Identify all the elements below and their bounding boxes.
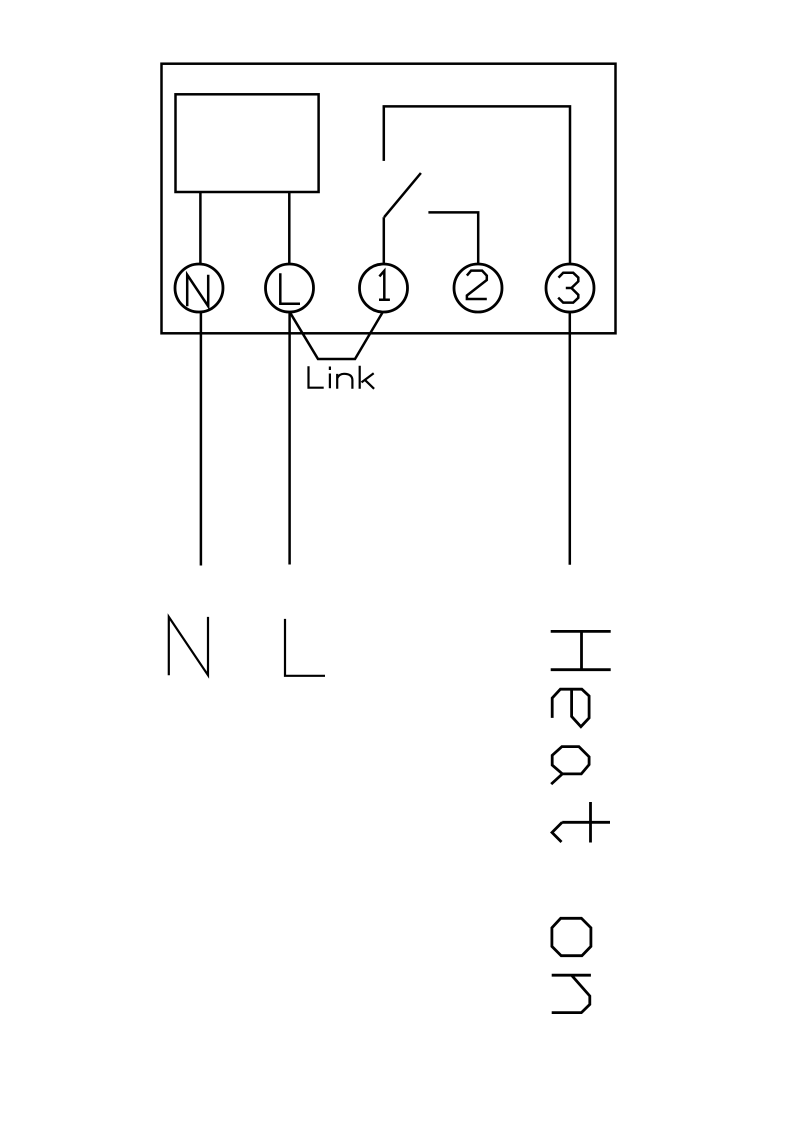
wire: neutral supply down from terminal N [200,312,203,566]
internal block: thermostat mechanism [176,94,319,192]
label: N (neutral conductor) [169,617,208,675]
terminal N circle [175,264,223,312]
wire: top rail from switch over to terminal 3 [384,106,570,263]
label: Heat on - letter a (rotated) [551,747,589,785]
terminal N letter [187,275,208,306]
label: Heat on - letter o (rotated) [552,918,591,955]
label: Heat on - letter e (rotated) [552,689,589,727]
terminal L circle [266,264,314,312]
terminal L letter [280,273,300,304]
wire: internal block to terminal N [199,192,202,264]
terminal 3 circle [546,264,594,312]
label: Heat on - letter n (rotated) [552,975,591,1012]
terminal 1 digit [379,271,390,300]
wire: internal block to terminal L [288,192,291,264]
terminal 1 circle [360,264,408,312]
label: Link - letter k [360,366,374,389]
switch feed wire from top rail down to blade pivot [383,106,386,160]
terminal 2 digit [467,271,487,299]
label: Heat on - letter t (rotated) [552,802,610,843]
wire: blade pivot to terminal 1 [383,217,386,264]
wire: heat-on output down from terminal 3 [569,312,572,565]
label: Link - letter i [329,367,331,389]
label: Link - letter n [337,374,352,389]
terminal 3 digit [558,273,578,303]
label: Heat on - letter H (rotated) [551,631,611,669]
enclosure: thermostat body outline [162,64,616,334]
terminal 2 circle [454,264,502,312]
wire: contact stub to terminal 2 [428,212,478,263]
switch blade (open contact) [384,173,421,217]
link wire between terminal L and terminal 1 [290,312,383,359]
wire: live supply down from terminal L [288,312,291,565]
label: Link - letter L [309,366,324,387]
label: L (live conductor) [285,619,325,676]
